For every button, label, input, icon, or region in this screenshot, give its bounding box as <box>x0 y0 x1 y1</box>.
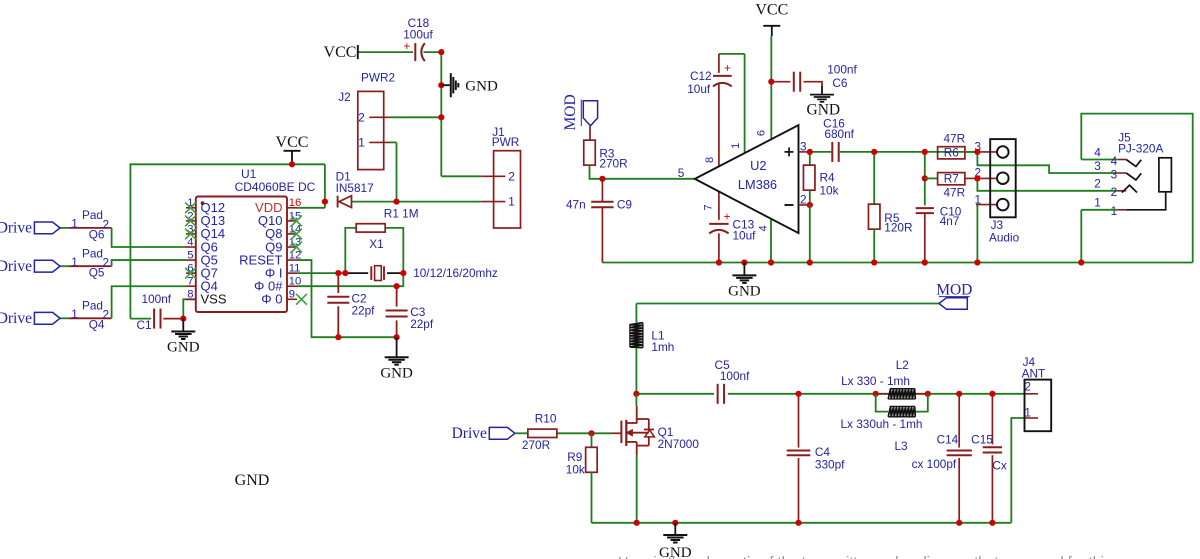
svg-text:U1: U1 <box>241 167 257 181</box>
svg-text:Drive: Drive <box>0 258 32 275</box>
svg-text:Q4: Q4 <box>89 318 105 332</box>
svg-text:C12: C12 <box>690 69 712 83</box>
svg-text:J2: J2 <box>338 90 350 104</box>
svg-text:Lx 330uh - 1mh: Lx 330uh - 1mh <box>841 417 923 431</box>
svg-text:1: 1 <box>71 255 78 269</box>
svg-text:10k: 10k <box>566 463 585 477</box>
svg-text:C15: C15 <box>971 432 993 446</box>
svg-text:1: 1 <box>1111 204 1118 218</box>
svg-text:L2: L2 <box>896 358 909 372</box>
svg-text:Cx: Cx <box>992 459 1007 473</box>
svg-text:8: 8 <box>704 157 716 163</box>
svg-text:MOD: MOD <box>562 94 579 130</box>
svg-text:10uf: 10uf <box>687 82 711 96</box>
svg-text:3: 3 <box>1111 167 1118 181</box>
svg-text:PJ-320A: PJ-320A <box>1118 142 1163 156</box>
svg-text:PWR: PWR <box>492 135 520 149</box>
svg-text:Φ 0: Φ 0 <box>261 292 282 307</box>
svg-text:Q5: Q5 <box>89 266 105 280</box>
svg-text:R1 1M: R1 1M <box>384 207 419 221</box>
svg-text:270R: 270R <box>599 156 627 170</box>
svg-text:VCC: VCC <box>276 134 309 151</box>
svg-text:PWR2: PWR2 <box>361 70 395 84</box>
svg-text:Drive: Drive <box>0 310 32 327</box>
svg-text:3: 3 <box>1094 159 1101 173</box>
svg-text:2: 2 <box>508 169 515 183</box>
svg-text:100uf: 100uf <box>403 28 433 42</box>
svg-text:1: 1 <box>508 195 515 209</box>
svg-text:Drive: Drive <box>0 220 32 237</box>
svg-text:1: 1 <box>1024 406 1031 420</box>
svg-text:GND: GND <box>380 366 413 382</box>
svg-text:GND: GND <box>728 283 761 299</box>
svg-text:L3: L3 <box>894 439 908 453</box>
svg-text:R4: R4 <box>820 171 836 185</box>
svg-text:2: 2 <box>358 110 365 124</box>
svg-text:Pad: Pad <box>82 208 103 222</box>
svg-text:120R: 120R <box>884 220 912 234</box>
svg-text:2N7000: 2N7000 <box>658 437 700 451</box>
svg-text:+: + <box>724 63 731 75</box>
svg-text:4: 4 <box>187 236 193 248</box>
svg-text:1mh: 1mh <box>651 340 674 354</box>
svg-text:22pf: 22pf <box>352 303 376 317</box>
svg-text:VCC: VCC <box>324 44 357 61</box>
svg-text:2: 2 <box>1094 177 1101 191</box>
svg-text:2: 2 <box>1024 380 1031 394</box>
svg-text:100nf: 100nf <box>720 369 750 383</box>
svg-text:10uf: 10uf <box>733 229 757 243</box>
svg-text:1: 1 <box>358 135 365 149</box>
svg-text:7: 7 <box>187 276 193 288</box>
svg-text:47R: 47R <box>943 185 965 199</box>
svg-text:100nf: 100nf <box>142 292 172 306</box>
svg-text:2: 2 <box>1111 185 1118 199</box>
svg-text:10/12/16/20mhz: 10/12/16/20mhz <box>413 266 498 280</box>
svg-text:GND: GND <box>167 339 200 355</box>
svg-text:47R: 47R <box>943 132 965 146</box>
svg-text:100nf: 100nf <box>827 63 857 77</box>
svg-text:Pad: Pad <box>82 299 103 313</box>
svg-text:1: 1 <box>71 307 78 321</box>
svg-text:C6: C6 <box>832 76 848 90</box>
svg-text:LM386: LM386 <box>738 177 777 192</box>
svg-text:22pf: 22pf <box>410 317 434 331</box>
svg-text:CD4060BE DC: CD4060BE DC <box>235 180 316 194</box>
svg-text:U2: U2 <box>750 158 766 173</box>
svg-text:R10: R10 <box>535 411 557 425</box>
svg-text:1: 1 <box>1094 196 1101 210</box>
svg-text:+: + <box>403 41 410 53</box>
svg-text:4: 4 <box>1111 154 1118 168</box>
svg-text:1: 1 <box>730 143 742 149</box>
svg-text:10k: 10k <box>820 184 839 198</box>
svg-text:2: 2 <box>800 193 807 207</box>
svg-text:11: 11 <box>289 263 301 275</box>
svg-text:+: + <box>724 211 731 223</box>
svg-text:680nf: 680nf <box>824 127 854 141</box>
svg-text:Drive: Drive <box>452 425 487 442</box>
svg-text:47n: 47n <box>566 198 586 212</box>
svg-text:10: 10 <box>289 276 302 288</box>
svg-text:16: 16 <box>289 197 302 209</box>
svg-text:Q6: Q6 <box>89 227 105 241</box>
svg-text:9: 9 <box>289 289 295 301</box>
svg-text:4n7: 4n7 <box>940 214 960 228</box>
svg-text:VSS: VSS <box>201 292 227 307</box>
svg-text:3: 3 <box>800 139 807 153</box>
svg-text:ANT: ANT <box>1022 367 1046 381</box>
svg-text:R7: R7 <box>944 172 959 186</box>
svg-text:5: 5 <box>187 249 193 261</box>
svg-text:7: 7 <box>703 204 715 210</box>
svg-text:MOD: MOD <box>936 281 972 298</box>
svg-text:4: 4 <box>757 225 769 231</box>
svg-text:Lx 330 - 1mh: Lx 330 - 1mh <box>841 374 910 388</box>
svg-text:R6: R6 <box>944 146 960 160</box>
svg-text:Here is the schematic of the t: Here is the schematic of the transmitter… <box>618 555 1111 559</box>
svg-text:8: 8 <box>187 289 193 301</box>
svg-text:12: 12 <box>289 249 302 261</box>
svg-text:IN5817: IN5817 <box>336 181 374 195</box>
svg-text:1: 1 <box>974 192 981 206</box>
svg-text:6: 6 <box>756 130 768 136</box>
svg-text:5: 5 <box>678 166 685 180</box>
svg-text:VCC: VCC <box>755 2 788 19</box>
svg-text:1: 1 <box>71 217 78 231</box>
svg-text:GND: GND <box>465 78 498 94</box>
svg-text:C14: C14 <box>937 432 959 446</box>
svg-text:330pf: 330pf <box>815 458 845 472</box>
svg-text:Pad: Pad <box>82 247 103 261</box>
svg-text:4: 4 <box>1094 145 1101 159</box>
svg-text:C9: C9 <box>617 198 632 212</box>
svg-text:X1: X1 <box>369 237 383 251</box>
svg-text:C1: C1 <box>136 318 151 332</box>
svg-text:GND: GND <box>235 472 270 489</box>
svg-text:Audio: Audio <box>989 231 1020 245</box>
svg-text:cx 100pf: cx 100pf <box>912 457 957 471</box>
svg-text:270R: 270R <box>522 438 550 452</box>
